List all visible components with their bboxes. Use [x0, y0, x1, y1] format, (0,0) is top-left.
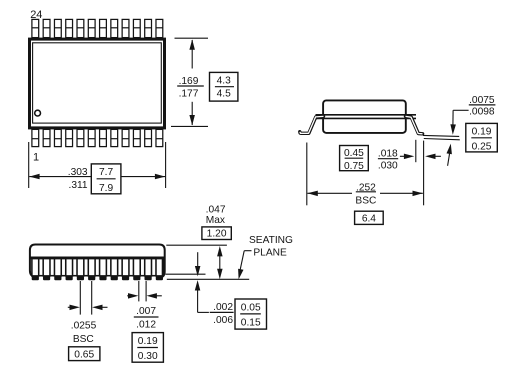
svg-text:.0255: .0255: [71, 321, 97, 332]
front view lead feet: [32, 276, 39, 280]
front view near-row leads: [32, 259, 39, 276]
lead width arrows: [127, 295, 130, 297]
top view pins 1-12 (bottom row): [32, 129, 39, 146]
body height extension line bottom: [171, 125, 208, 127]
side view mold parting line: [316, 114, 417, 116]
lead span dimension line with arrows: [307, 192, 352, 194]
body height extension line top: [175, 37, 209, 39]
metric box 1.20: [202, 227, 231, 240]
foot bottom reference line: [166, 273, 206, 275]
overall height arrows .047: [219, 252, 221, 273]
svg-text:0.19: 0.19: [472, 127, 492, 138]
svg-text:.177: .177: [179, 88, 199, 99]
svg-text:.002: .002: [213, 302, 233, 313]
svg-text:0.05: 0.05: [241, 302, 261, 313]
svg-text:0.15: 0.15: [241, 317, 261, 328]
lead thickness detail lead: [423, 135, 459, 136]
svg-text:.030: .030: [378, 160, 398, 171]
metric box 0.19/0.30: [132, 333, 163, 363]
seating plane line: [167, 278, 249, 280]
svg-text:.012: .012: [136, 320, 156, 331]
pitch arrows: [68, 306, 71, 308]
svg-text:Max: Max: [206, 215, 225, 226]
svg-text:0.65: 0.65: [74, 349, 94, 360]
foot length extension line left: [415, 140, 417, 162]
svg-text:4.5: 4.5: [217, 88, 231, 99]
foot length extension line right: [423, 141, 425, 206]
svg-text:.006: .006: [213, 315, 233, 326]
svg-text:.303: .303: [68, 167, 88, 178]
top view body inner line: [33, 43, 162, 123]
svg-text:.0098: .0098: [469, 107, 495, 118]
svg-text:BSC: BSC: [73, 334, 94, 345]
svg-text:.169: .169: [179, 76, 199, 87]
svg-text:.0075: .0075: [469, 95, 495, 106]
metric box 7.7/7.9: [91, 164, 121, 194]
svg-text:1: 1: [33, 151, 39, 163]
svg-text:.252: .252: [356, 182, 376, 193]
svg-text:1.20: 1.20: [207, 229, 227, 240]
top view pins 24-13 (top row): [32, 19, 39, 37]
metric box 4.3/4.5: [210, 72, 238, 101]
svg-text:0.19: 0.19: [138, 336, 158, 347]
lead span extension line left: [306, 143, 308, 206]
metric box 6.4: [355, 211, 384, 224]
svg-text:SEATING: SEATING: [249, 235, 293, 246]
svg-text:24: 24: [30, 9, 42, 21]
svg-text:.007: .007: [136, 306, 156, 317]
pitch extension lines: [79, 281, 81, 315]
body width extension line left: [28, 142, 30, 188]
body width dimension line with arrows: [29, 176, 91, 178]
svg-text:0.75: 0.75: [344, 161, 364, 172]
metric box 0.05/0.15: [235, 299, 267, 329]
svg-text:6.4: 6.4: [362, 214, 376, 225]
side view left gull-wing lead: [300, 116, 324, 133]
front view body right end cap: [162, 259, 166, 276]
svg-text:.311: .311: [69, 180, 88, 191]
seating plane leader arrow: [244, 250, 251, 252]
foot length arrows: [400, 155, 406, 157]
pin 1 index dot: [35, 110, 41, 116]
svg-text:4.3: 4.3: [217, 75, 231, 86]
top view package body outline: [30, 39, 165, 128]
body height dimension line with arrows: [191, 40, 193, 69]
svg-text:BSC: BSC: [355, 195, 376, 206]
arrow to lead underside: [448, 152, 450, 166]
front view far-row leads: [38, 259, 45, 276]
leader and arrow from .0098 to lead top: [453, 109, 468, 111]
side view package body: [323, 100, 406, 132]
front view lead attach line: [30, 257, 165, 260]
front view body outline: [30, 245, 165, 278]
svg-text:0.30: 0.30: [138, 351, 158, 362]
standoff up arrow and leader: [195, 280, 201, 290]
side view right gull-wing lead: [406, 116, 423, 134]
svg-text:PLANE: PLANE: [253, 247, 287, 258]
svg-text:0.25: 0.25: [472, 142, 492, 153]
body width extension line right: [165, 142, 167, 188]
svg-text:7.9: 7.9: [99, 183, 113, 194]
metric box 0.19/0.25: [466, 123, 498, 151]
body top extension line: [166, 244, 227, 246]
metric box 0.45/0.75: [340, 146, 369, 171]
metric box 0.65: [69, 347, 100, 361]
svg-text:.018: .018: [378, 149, 398, 160]
standoff down arrow: [197, 252, 199, 266]
svg-text:7.7: 7.7: [99, 167, 113, 178]
svg-text:0.45: 0.45: [344, 148, 364, 159]
lead width extension lines: [138, 281, 140, 301]
